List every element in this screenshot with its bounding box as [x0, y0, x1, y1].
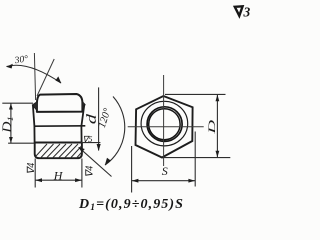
arc right arrowhead	[55, 76, 61, 83]
svg-text:H: H	[53, 169, 64, 183]
D1 bottom arrowhead	[9, 137, 13, 143]
svg-text:∇5: ∇5	[83, 134, 93, 144]
nut base strip (hatched)	[35, 143, 82, 159]
30-deg vertical ray	[34, 53, 35, 100]
S right extension line	[194, 132, 196, 187]
H right arrowhead	[75, 178, 82, 182]
hexagon face view	[136, 96, 193, 158]
hatching of base strip	[36, 144, 82, 158]
svg-text:30°: 30°	[13, 53, 29, 66]
label D1	[1, 116, 16, 134]
arc left arrowhead	[6, 64, 13, 69]
S left extension line	[131, 146, 133, 193]
120 arc arrowhead	[105, 158, 111, 166]
surface mark nabla-5 shelf line	[81, 142, 100, 144]
horizontal centerline	[128, 126, 204, 128]
nut body left edge	[33, 105, 35, 142]
page mark 73	[235, 5, 251, 20]
30-deg slanted ray	[37, 59, 54, 96]
30-deg dimension arc	[7, 65, 62, 83]
chamfer circle (outer)	[141, 101, 188, 146]
D dimension line	[216, 94, 218, 157]
S left arrowhead	[132, 179, 139, 183]
D1 top extension line	[2, 102, 33, 104]
svg-text:3: 3	[243, 5, 251, 20]
D top arrowhead	[216, 95, 220, 102]
left corner wedge	[32, 102, 37, 111]
d arrowhead	[97, 144, 101, 151]
bottom chamfer leader line	[79, 147, 112, 176]
D1 top arrowhead	[9, 103, 13, 109]
H left arrowhead	[35, 178, 42, 182]
vertical centerline	[163, 75, 165, 166]
D bottom arrowhead	[216, 151, 220, 158]
nut body right edge	[81, 105, 84, 143]
D1 bottom extension line	[8, 142, 34, 144]
thread minor circle	[149, 109, 180, 140]
svg-text:D: D	[207, 120, 217, 135]
leader arrowhead	[78, 147, 84, 152]
nut mid facet line	[34, 125, 86, 127]
svg-text:∇4: ∇4	[85, 166, 96, 178]
H right extension line	[81, 159, 83, 188]
D bottom extension line	[164, 157, 231, 159]
svg-text:S: S	[162, 164, 168, 178]
S dimension line	[132, 180, 196, 182]
S right arrowhead	[188, 179, 195, 183]
H dimension line	[35, 179, 82, 181]
d dimension line	[98, 87, 100, 150]
D top extension line	[165, 93, 226, 95]
D1 dimension line	[10, 103, 12, 143]
thread hole circle (inner, thick)	[147, 107, 182, 142]
H left extension line	[34, 159, 36, 188]
right corner wedge	[82, 101, 85, 110]
120-deg dimension arc	[105, 97, 125, 166]
nut top face cap (side view)	[37, 94, 83, 112]
